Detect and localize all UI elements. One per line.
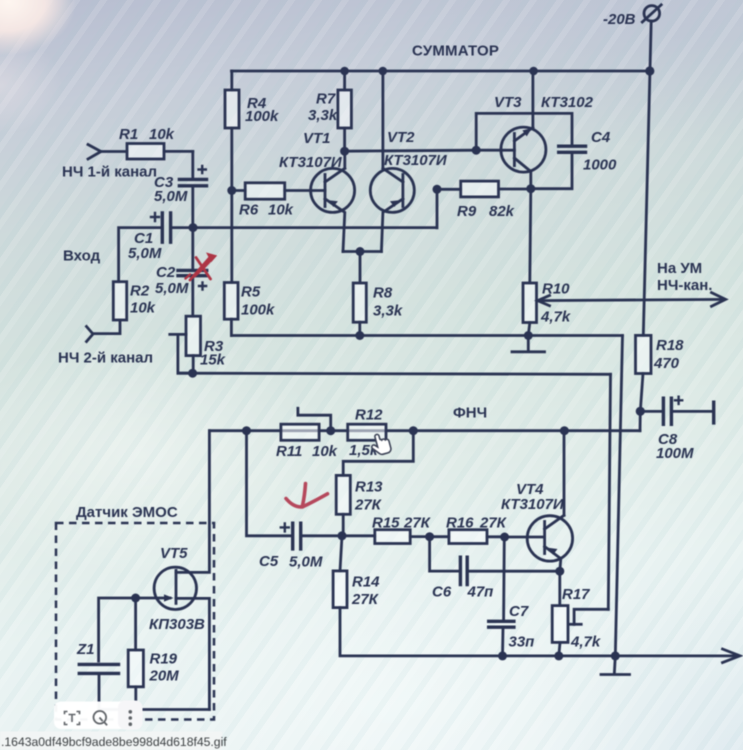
svg-text:27К: 27К (354, 497, 383, 514)
svg-text:100М: 100М (656, 445, 694, 462)
svg-text:R12: R12 (355, 407, 383, 424)
svg-text:R5: R5 (241, 284, 261, 301)
svg-text:3,3k: 3,3k (308, 107, 338, 124)
svg-text:10k: 10k (268, 202, 294, 219)
svg-text:3,3k: 3,3k (373, 303, 403, 320)
svg-text:C6: C6 (432, 584, 452, 601)
svg-text:R15: R15 (372, 515, 400, 532)
svg-text:СУММАТОР: СУММАТОР (412, 43, 499, 60)
node rail-VT3 (529, 67, 538, 76)
svg-text:470: 470 (653, 355, 680, 372)
svg-text:15k: 15k (200, 352, 226, 369)
transistor VT1 (279, 130, 355, 252)
svg-text:82k: 82k (489, 203, 515, 220)
power terminal -20V (642, 5, 661, 22)
red scribble near R13 (286, 484, 328, 507)
transistor VT3 (476, 71, 593, 189)
wire node to R10 (530, 189, 531, 283)
node VT4 collector on LPF line (560, 426, 569, 435)
node R10 bottom / ground (524, 331, 533, 340)
node R16/VT4 base/C7 (500, 533, 509, 542)
svg-text:КТ3102: КТ3102 (541, 94, 594, 111)
svg-text:1000: 1000 (583, 157, 617, 174)
svg-text:VT2: VT2 (387, 129, 415, 146)
potentiometer R10 (523, 281, 571, 336)
node rail-R7 (340, 67, 349, 76)
svg-text:Датчик ЭМОС: Датчик ЭМОС (76, 504, 178, 521)
transistor VT5 JFET (136, 431, 210, 710)
wire C1 right to node A (172, 226, 193, 229)
wire VT3 base loop to C4 (476, 113, 572, 150)
node R7/VT1 (340, 147, 349, 156)
svg-text:100k: 100k (241, 302, 275, 319)
svg-text:На УМ: На УМ (657, 260, 702, 277)
svg-text:КП303В: КП303В (149, 616, 205, 633)
node VT2 base (433, 185, 442, 194)
svg-text:ФНЧ: ФНЧ (453, 405, 487, 422)
svg-text:C4: C4 (591, 129, 611, 146)
svg-text:.1643a0df49bcf9ade8be998d4d618: .1643a0df49bcf9ade8be998d4d618f45.gif (1, 735, 227, 749)
ground symbol LPF (601, 656, 630, 675)
node R11/R12 (326, 426, 335, 435)
svg-text:4,7k: 4,7k (540, 309, 571, 326)
wire power vertical -20V to R18 (643, 21, 651, 335)
svg-text:4,7k: 4,7k (570, 634, 601, 651)
red scribble over C2 (186, 253, 217, 280)
resistor R15 (342, 515, 432, 544)
input connector НЧ 2-й канал (87, 327, 94, 342)
svg-text:R19: R19 (150, 651, 178, 668)
node R12 right (409, 426, 418, 435)
node R17 bottom (554, 651, 563, 660)
svg-text:R17: R17 (562, 586, 590, 603)
wire R3 feedback vertical to R17 tap (608, 374, 610, 609)
wire R7 node to VT3 base node (345, 150, 477, 151)
wire C1 left to R2 (119, 228, 161, 282)
capacitor C8 (640, 396, 713, 463)
resistor R2 (93, 282, 156, 334)
resistor R3 with tap (170, 316, 226, 373)
svg-text:R13: R13 (355, 479, 383, 496)
node ground LPF (611, 651, 620, 660)
wire R3 node to LPF column (178, 373, 611, 374)
node VT3 emitter / C4 / R9 / R10 (526, 184, 535, 193)
svg-text:5,0М: 5,0М (289, 554, 323, 571)
resistor R4 (225, 71, 279, 283)
svg-text:R18: R18 (656, 337, 684, 354)
filename strip (0, 732, 227, 750)
wire LPF node down to C5 (247, 431, 291, 536)
svg-text:Вход: Вход (63, 248, 101, 265)
capacitor C6 (430, 537, 560, 601)
svg-text:VT5: VT5 (160, 545, 188, 562)
ground symbol sum section (512, 336, 545, 352)
resistor R8 (353, 283, 403, 336)
svg-text:Z1: Z1 (76, 641, 95, 658)
node VT3 base (472, 146, 481, 155)
svg-text:10k: 10k (312, 443, 338, 460)
node VT4 emitter / C6 / R17 (555, 567, 564, 576)
svg-text:НЧ 2-й канал: НЧ 2-й канал (58, 350, 153, 367)
svg-text:100k: 100k (245, 108, 279, 125)
resistor R7 (308, 71, 351, 151)
svg-text:НЧ 1-й канал: НЧ 1-й канал (62, 164, 157, 181)
node R4/R6/R5 (227, 186, 236, 195)
wire sensor bottom (99, 708, 210, 711)
svg-text:R10: R10 (542, 281, 570, 298)
svg-text:27К: 27К (351, 591, 380, 608)
svg-text:47п: 47п (467, 584, 494, 601)
svg-text:КТ3107И: КТ3107И (501, 496, 565, 513)
resistor R9 (437, 181, 531, 220)
resistor R1 (101, 126, 193, 159)
capacitor C2 (155, 228, 208, 317)
resistor R5 (224, 283, 275, 336)
svg-text:5,0М: 5,0М (155, 280, 189, 297)
transistor VT2 (370, 71, 448, 252)
svg-text:5,0М: 5,0М (154, 188, 188, 205)
transistor VT4 (501, 431, 573, 572)
svg-text:5,0М: 5,0М (128, 245, 162, 262)
svg-text:10k: 10k (149, 126, 175, 143)
svg-text:C7: C7 (509, 603, 529, 620)
svg-text:10k: 10k (130, 300, 156, 317)
trimmer R11 (276, 408, 338, 460)
trimmer R17 with tap (552, 571, 608, 656)
svg-text:R8: R8 (373, 285, 393, 302)
wire C3 to node A (191, 187, 194, 227)
svg-text:R16: R16 (446, 515, 474, 532)
capacitor C3 (154, 165, 208, 205)
svg-text:КТ3107И: КТ3107И (279, 154, 343, 171)
wire LPF input line (210, 429, 640, 432)
wire right return vertical (615, 336, 622, 656)
svg-text:R14: R14 (352, 574, 380, 591)
svg-text:R6: R6 (239, 202, 259, 219)
resistor R16 (430, 515, 508, 544)
resistor R19 (128, 598, 179, 710)
node emitter junction (356, 247, 365, 256)
svg-text:C5: C5 (259, 553, 279, 570)
capacitor C7 (487, 537, 534, 656)
svg-text:33п: 33п (509, 634, 535, 651)
wire R1 to C3 (191, 151, 194, 178)
toolbar overlay (54, 701, 143, 730)
node LPF left (242, 426, 251, 435)
node rail-power (645, 66, 654, 75)
node R18/C8 (636, 407, 645, 416)
svg-text:VT3: VT3 (494, 94, 522, 111)
svg-text:VT1: VT1 (303, 130, 331, 147)
capacitor C5 (259, 522, 342, 571)
svg-text:R11: R11 (276, 443, 302, 460)
piezo element Z1 (76, 641, 120, 710)
node R15/R16/C6 (425, 532, 434, 541)
node R13/C5/R14/R15 (338, 531, 347, 540)
resistor R18 (636, 335, 685, 411)
svg-text:R2: R2 (130, 283, 150, 300)
svg-text:C2: C2 (156, 264, 176, 281)
svg-text:27К: 27К (403, 515, 432, 532)
resistor R13 (336, 475, 383, 535)
wire R12 node down to R13 (343, 431, 413, 476)
svg-text:НЧ-кан.: НЧ-кан. (657, 277, 712, 294)
resistor R6 (232, 183, 325, 219)
capacitor C1 (128, 211, 171, 262)
svg-text:-20В: -20В (603, 11, 636, 28)
arrow bottom rail output (723, 649, 741, 663)
node R8 bottom (355, 331, 364, 340)
input connector НЧ 1-й канал (88, 145, 101, 160)
wire sum section bottom rail (231, 334, 622, 337)
svg-text:R9: R9 (457, 203, 477, 220)
resistor R12 (348, 407, 386, 460)
node C7 bottom (498, 651, 507, 660)
svg-text:27К: 27К (479, 515, 508, 532)
svg-text:R1: R1 (119, 126, 138, 143)
wire R10 wiper to На УМ arrow (538, 293, 726, 307)
node R3 bottom (188, 369, 197, 378)
wire emitter junction bar (343, 252, 382, 284)
capacitor C4 (531, 129, 617, 189)
node VT5 gate / Z1 / R19 (131, 594, 140, 603)
svg-text:R7: R7 (316, 91, 336, 108)
svg-text:20М: 20М (149, 668, 180, 685)
wire gate node to Z1 (99, 598, 136, 661)
node A (C1/C3/C2 junction) (189, 223, 198, 232)
wire C8 node down to LPF line (639, 411, 642, 430)
mouse cursor hand (369, 432, 392, 457)
svg-text:КТ3107И: КТ3107И (384, 152, 448, 169)
wire top supply rail (232, 70, 650, 73)
dashed box Датчик ЭМОС (56, 523, 214, 720)
resistor R14 (333, 536, 738, 656)
node rail-VT2 (379, 67, 388, 76)
wire feedback node A to VT2 base (193, 189, 437, 228)
